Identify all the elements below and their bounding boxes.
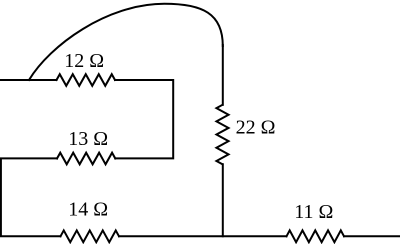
wire 22ohm branch upper vertical — [222, 45, 224, 105]
wire row2 left segment, left vertical and row3 left segment — [1, 158, 61, 236]
svg-text:22 Ω: 22 Ω — [236, 117, 276, 139]
wire row3 right segment — [344, 235, 400, 237]
svg-text:13 Ω: 13 Ω — [68, 128, 108, 150]
wire top row right segment, right vertical and row2 right segment — [115, 80, 173, 158]
wire row3 middle segment — [119, 235, 287, 237]
resistor R3 14ohm zigzag — [61, 230, 120, 242]
resistor R4 22ohm vertical zigzag — [216, 105, 228, 165]
wire top row left segment — [0, 79, 57, 81]
wire hop arc from node on top row to 22ohm branch — [29, 4, 223, 80]
svg-text:12 Ω: 12 Ω — [64, 50, 104, 72]
svg-text:11 Ω: 11 Ω — [294, 201, 333, 223]
resistor R2 13ohm zigzag — [57, 153, 115, 165]
resistor R1 12ohm zigzag — [57, 74, 116, 86]
resistor R5 11ohm zigzag — [287, 230, 345, 242]
wire 22ohm branch lower vertical — [222, 164, 224, 236]
svg-text:14 Ω: 14 Ω — [68, 199, 108, 221]
